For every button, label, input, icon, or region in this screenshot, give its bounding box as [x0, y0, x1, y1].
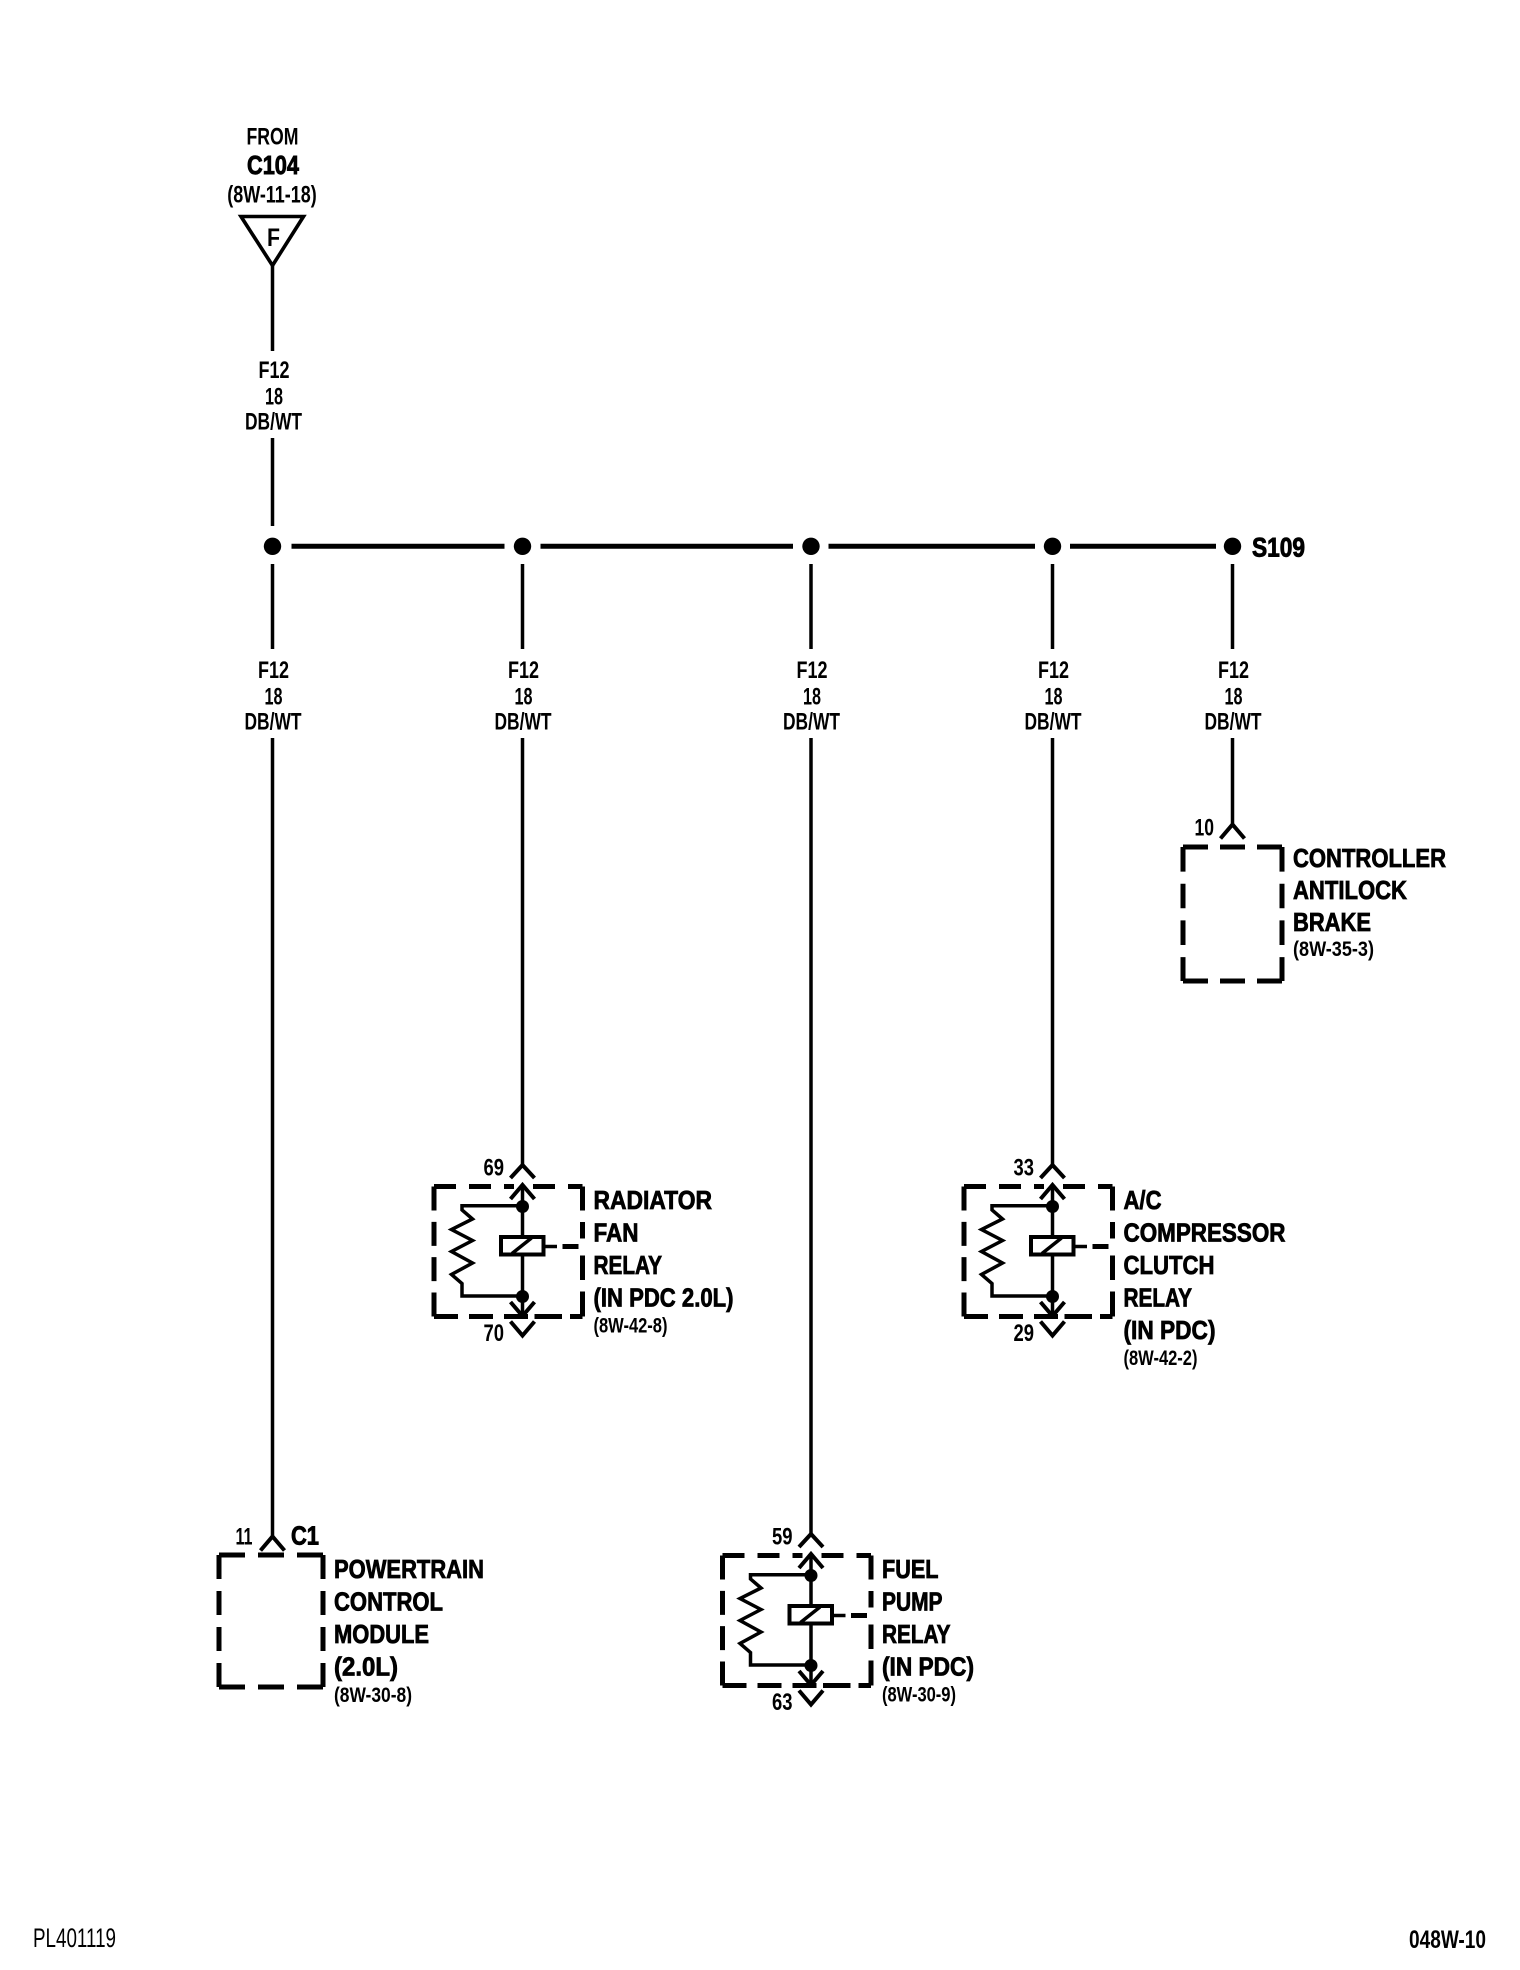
- relay coil of FUEL PUMP RELAY: [790, 1606, 833, 1624]
- wire A/C COMPRESSOR CLUTCH RELAY pin 33 to coil: [1051, 1185, 1055, 1238]
- svg-text:18: 18: [265, 684, 283, 711]
- controller antilock brake dashed box: [1183, 845, 1282, 850]
- svg-text:(8W-30-8): (8W-30-8): [334, 1684, 412, 1707]
- wire splice bus S109 segment 2: [541, 544, 794, 549]
- connector chevron pin 70 (component side): [511, 1302, 535, 1316]
- svg-text:PL401119: PL401119: [33, 1923, 116, 1953]
- svg-text:PUMP: PUMP: [882, 1587, 943, 1617]
- junction dot 3: [802, 538, 819, 555]
- wire FUEL PUMP RELAY pin 59 to coil: [809, 1554, 813, 1607]
- svg-text:FROM: FROM: [247, 124, 299, 151]
- svg-text:048W-10: 048W-10: [1409, 1926, 1486, 1954]
- svg-text:COMPRESSOR: COMPRESSOR: [1124, 1218, 1286, 1248]
- wire F12 drop 3 upper segment: [809, 564, 813, 649]
- connector chevron pin 33 (component side): [1041, 1185, 1065, 1199]
- wire coil to pin 63 of FUEL PUMP RELAY: [809, 1624, 813, 1686]
- svg-text:F12: F12: [258, 657, 289, 684]
- svg-text:18: 18: [803, 684, 821, 711]
- svg-text:F: F: [267, 224, 280, 252]
- RADIATOR FAN RELAY dashed box: [434, 1184, 514, 1189]
- svg-text:CONTROLLER: CONTROLLER: [1293, 843, 1446, 873]
- wire RADIATOR FAN RELAY pin 69 to coil: [521, 1185, 525, 1238]
- svg-text:33: 33: [1014, 1155, 1035, 1182]
- relay coil of A/C COMPRESSOR CLUTCH RELAY: [1031, 1237, 1074, 1255]
- svg-text:70: 70: [484, 1320, 505, 1347]
- svg-text:FUEL: FUEL: [882, 1554, 939, 1584]
- svg-text:(8W-42-2): (8W-42-2): [1124, 1347, 1198, 1370]
- A/C COMPRESSOR CLUTCH RELAY dashed box: [964, 1184, 1044, 1189]
- junction dot top of RADIATOR FAN RELAY: [516, 1200, 529, 1213]
- svg-text:(IN PDC 2.0L): (IN PDC 2.0L): [594, 1283, 734, 1313]
- svg-text:DB/WT: DB/WT: [1205, 709, 1262, 736]
- svg-text:18: 18: [1225, 684, 1243, 711]
- junction dot 2: [514, 538, 531, 555]
- svg-text:DB/WT: DB/WT: [1025, 709, 1082, 736]
- connector chevron pin 29 (component side): [1041, 1302, 1065, 1316]
- svg-text:(IN PDC): (IN PDC): [882, 1652, 974, 1682]
- svg-text:F12: F12: [1218, 657, 1249, 684]
- svg-text:F12: F12: [1038, 657, 1069, 684]
- svg-text:S109: S109: [1252, 533, 1305, 563]
- wire splice bus S109 segment 4: [1070, 544, 1216, 549]
- svg-text:(8W-35-3): (8W-35-3): [1293, 938, 1374, 961]
- junction dot 4: [1044, 538, 1061, 555]
- wire F12 continues to splice S109: [271, 438, 275, 526]
- svg-text:(IN PDC): (IN PDC): [1124, 1315, 1216, 1345]
- svg-text:69: 69: [484, 1155, 505, 1182]
- svg-text:C1: C1: [291, 1521, 319, 1551]
- svg-text:10: 10: [1195, 815, 1215, 842]
- connector chevron pin 69 (harness side): [511, 1165, 535, 1178]
- wire coil to pin 29 of A/C COMPRESSOR CLUTCH RELAY: [1051, 1255, 1055, 1317]
- svg-text:29: 29: [1014, 1320, 1035, 1347]
- svg-text:C104: C104: [247, 150, 299, 180]
- svg-text:18: 18: [515, 684, 533, 711]
- wire F12 drop 5 upper segment: [1231, 564, 1235, 649]
- svg-text:RADIATOR: RADIATOR: [594, 1185, 713, 1215]
- connector chevron pin 10: [1221, 825, 1245, 839]
- junction dot 1: [264, 538, 281, 555]
- junction dot bottom of A/C COMPRESSOR CLUTCH RELAY: [1046, 1290, 1059, 1303]
- svg-text:BRAKE: BRAKE: [1293, 907, 1371, 937]
- junction dot bottom of RADIATOR FAN RELAY: [516, 1290, 529, 1303]
- connector chevron pin 63 (harness side): [799, 1691, 823, 1705]
- wire F12 drop 4 upper segment: [1051, 564, 1055, 649]
- resistor (in parallel with coil) of A/C COMPRESSOR CLUTCH RELAY: [982, 1206, 1053, 1296]
- wire F12 drop 2 upper segment: [521, 564, 525, 649]
- FUEL PUMP RELAY dashed box: [723, 1553, 803, 1558]
- svg-text:ANTILOCK: ANTILOCK: [1293, 875, 1407, 905]
- svg-text:18: 18: [1045, 684, 1063, 711]
- svg-text:63: 63: [772, 1689, 793, 1716]
- svg-text:FAN: FAN: [594, 1218, 639, 1248]
- junction dot top of FUEL PUMP RELAY: [805, 1569, 818, 1582]
- wire F12 drop 5 to controller antilock brake pin 10: [1231, 738, 1235, 824]
- svg-text:(2.0L): (2.0L): [334, 1652, 398, 1682]
- svg-text:(8W-42-8): (8W-42-8): [594, 1315, 668, 1338]
- connector chevron pin 59 (component side): [799, 1554, 823, 1568]
- svg-text:F12: F12: [259, 357, 290, 384]
- junction dot 5 (splice end): [1224, 538, 1241, 555]
- svg-text:DB/WT: DB/WT: [245, 709, 302, 736]
- wire splice bus S109 segment 3: [829, 544, 1036, 549]
- connector chevron pin 59 (harness side): [799, 1534, 823, 1547]
- connector chevron pin 70 (harness side): [511, 1322, 535, 1336]
- svg-text:F12: F12: [508, 657, 539, 684]
- svg-text:11: 11: [236, 1524, 253, 1551]
- junction dot bottom of FUEL PUMP RELAY: [805, 1659, 818, 1672]
- wire F12 drop 3 to fuel pump relay pin 59: [809, 738, 813, 1534]
- connector chevron pin 33 (harness side): [1041, 1165, 1065, 1178]
- wire F12 drop 1 upper segment: [271, 564, 275, 649]
- connector chevron pin 69 (component side): [511, 1185, 535, 1199]
- wire F12 from C104 to S109 (upper segment): [271, 266, 275, 352]
- svg-text:MODULE: MODULE: [334, 1619, 429, 1649]
- svg-text:RELAY: RELAY: [594, 1250, 663, 1280]
- wire F12 drop 2 to radiator fan relay pin 69: [521, 738, 525, 1165]
- svg-text:18: 18: [265, 384, 283, 411]
- wire coil to pin 70 of RADIATOR FAN RELAY: [521, 1255, 525, 1317]
- connector C104 triangle symbol "F": [241, 217, 304, 266]
- wire splice bus S109 segment 1: [292, 544, 505, 549]
- junction dot top of A/C COMPRESSOR CLUTCH RELAY: [1046, 1200, 1059, 1213]
- svg-text:DB/WT: DB/WT: [245, 409, 302, 436]
- connector chevron pin 29 (harness side): [1041, 1322, 1065, 1336]
- svg-text:A/C: A/C: [1124, 1185, 1162, 1215]
- connector chevron pin 11: [261, 1537, 285, 1551]
- wire F12 drop 4 to A/C relay pin 33: [1051, 738, 1055, 1165]
- svg-text:RELAY: RELAY: [1124, 1283, 1193, 1313]
- wire F12 drop 1 to PCM pin 11: [271, 738, 275, 1537]
- resistor (in parallel with coil) of FUEL PUMP RELAY: [740, 1575, 811, 1665]
- connector chevron pin 63 (component side): [799, 1671, 823, 1685]
- svg-text:(8W-30-9): (8W-30-9): [882, 1684, 956, 1707]
- powertrain control module dashed box: [219, 1553, 323, 1558]
- svg-text:59: 59: [772, 1524, 793, 1551]
- svg-text:CONTROL: CONTROL: [334, 1587, 443, 1617]
- svg-text:F12: F12: [797, 657, 828, 684]
- relay coil of RADIATOR FAN RELAY: [501, 1237, 544, 1255]
- svg-text:RELAY: RELAY: [882, 1619, 951, 1649]
- svg-text:DB/WT: DB/WT: [495, 709, 552, 736]
- resistor (in parallel with coil) of RADIATOR FAN RELAY: [452, 1206, 523, 1296]
- svg-text:DB/WT: DB/WT: [783, 709, 840, 736]
- svg-text:POWERTRAIN: POWERTRAIN: [334, 1554, 484, 1584]
- svg-text:CLUTCH: CLUTCH: [1124, 1250, 1215, 1280]
- svg-text:(8W-11-18): (8W-11-18): [227, 182, 317, 209]
